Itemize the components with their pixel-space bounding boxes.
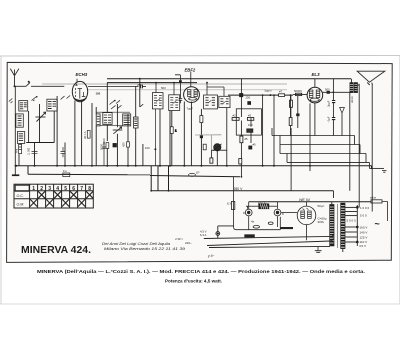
svg-text:2: 2 — [40, 186, 43, 192]
svg-text:5µµm: 5µµm — [265, 89, 273, 93]
svg-text:O.C.: O.C. — [17, 194, 24, 198]
svg-text:~1µF: ~1µF — [327, 116, 331, 123]
svg-text:50000: 50000 — [294, 89, 302, 93]
svg-text:100: 100 — [145, 146, 150, 150]
svg-text:3: 3 — [48, 186, 51, 192]
svg-text:#7: #7 — [279, 90, 283, 94]
svg-text:500: 500 — [161, 86, 166, 90]
svg-text:4a: 4a — [251, 220, 255, 224]
svg-text:Dei Anni Del Luigi Cozzi Dell: Dei Anni Del Luigi Cozzi Dell Aquila — [102, 242, 170, 246]
svg-text:#5: #5 — [253, 142, 257, 146]
svg-text:20 t A: 20 t A — [83, 131, 87, 139]
svg-text:5 0 0: 5 0 0 — [360, 214, 367, 218]
svg-text:7µµF: 7µµF — [187, 106, 194, 110]
svg-text:6,3 A: 6,3 A — [200, 233, 207, 237]
svg-text:100: 100 — [248, 123, 253, 127]
svg-text:500: 500 — [325, 87, 330, 91]
svg-text:WE 54: WE 54 — [299, 198, 310, 202]
svg-text:Ant: Ant — [15, 149, 19, 153]
svg-text:Potenza d’uscita: 4,5 watt.: Potenza d’uscita: 4,5 watt. — [165, 278, 222, 283]
svg-text:300v: 300v — [318, 220, 325, 224]
svg-text:4,5 V: 4,5 V — [359, 244, 366, 248]
svg-text:#2: #2 — [233, 114, 237, 118]
svg-text:250: 250 — [137, 83, 142, 87]
svg-text:425: 425 — [122, 142, 126, 147]
svg-text:MINERVA 424.: MINERVA 424. — [21, 245, 91, 256]
svg-text:MINERVA (Dell’Aquila — L.ªCozz: MINERVA (Dell’Aquila — L.ªCozzi S. A. I.… — [37, 269, 365, 274]
svg-text:y 6~: y 6~ — [207, 254, 215, 258]
svg-text:LP: LP — [196, 171, 200, 175]
svg-text:1 0 0 0: 1 0 0 0 — [360, 206, 370, 210]
svg-text:220~: 220~ — [185, 241, 192, 245]
svg-text:#5: #5 — [245, 137, 249, 141]
svg-text:250: 250 — [246, 95, 251, 99]
svg-text:O.M.: O.M. — [17, 202, 25, 206]
svg-text:ECH3: ECH3 — [76, 72, 88, 77]
svg-text:160 V: 160 V — [360, 226, 368, 230]
svg-text:4 39 =: 4 39 = — [175, 237, 183, 241]
svg-text:140 V: 140 V — [360, 231, 368, 235]
svg-text:EL3: EL3 — [312, 72, 321, 77]
svg-text:#3: #3 — [248, 114, 252, 118]
svg-text:Milano Via Bernardo 15 22 1: Milano Via Bernardo 15 22 11 41 39 — [104, 247, 185, 251]
svg-text:11 500: 11 500 — [28, 147, 31, 155]
svg-text:5000: 5000 — [102, 138, 106, 145]
svg-text:Fo: Fo — [63, 169, 67, 173]
svg-text:g: g — [351, 99, 353, 103]
svg-text:6,3: 6,3 — [227, 202, 231, 206]
svg-text:280 V: 280 V — [234, 187, 244, 191]
svg-text:8: 8 — [88, 186, 91, 192]
svg-text:50µ=: 50µ= — [318, 204, 325, 208]
svg-text:125 V: 125 V — [360, 236, 368, 240]
svg-text:3µµF: 3µµF — [327, 100, 331, 107]
svg-text:6: 6 — [72, 186, 75, 192]
svg-text:~: ~ — [375, 219, 380, 229]
svg-text:4: 4 — [56, 186, 59, 192]
svg-text:a fus: a fus — [370, 196, 377, 200]
svg-text:7: 7 — [80, 186, 83, 192]
svg-text:500 5µ: 500 5µ — [258, 202, 268, 206]
svg-text:1: 1 — [32, 186, 35, 192]
svg-text:5: 5 — [64, 186, 67, 192]
svg-text:EBF2: EBF2 — [185, 67, 196, 72]
svg-text:100: 100 — [96, 92, 101, 96]
svg-text:5 0 0 0: 5 0 0 0 — [347, 219, 357, 223]
